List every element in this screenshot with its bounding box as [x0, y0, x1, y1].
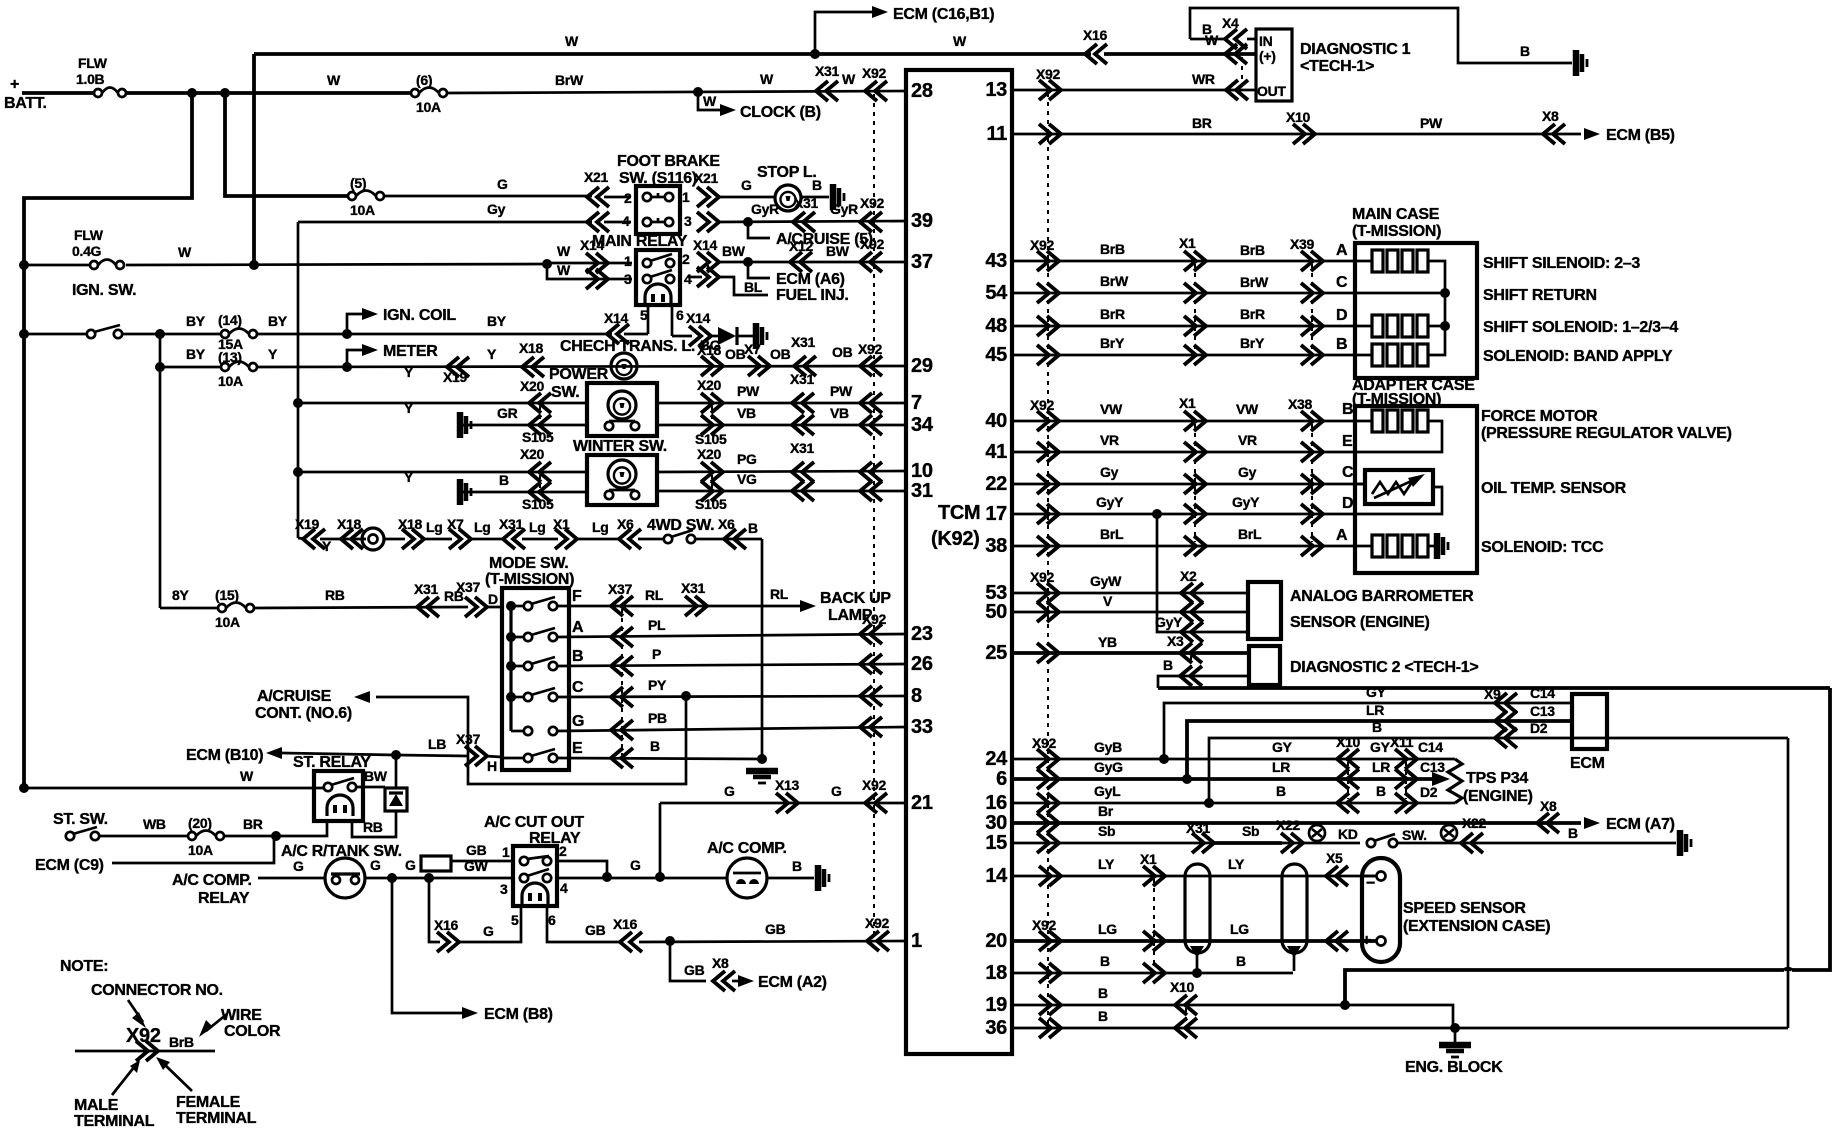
svg-text:A: A [1336, 527, 1348, 544]
fuse (5) 10A [348, 192, 356, 200]
svg-text:X16: X16 [613, 916, 638, 932]
svg-text:(5): (5) [350, 175, 366, 191]
wire TCM 48 BrR to main case D [1012, 325, 1355, 328]
svg-text:METER: METER [383, 343, 438, 360]
connector X3 dashes [1190, 656, 1192, 672]
connector X37 dashes (right) [621, 609, 623, 755]
svg-text:B: B [1098, 1008, 1108, 1024]
ground at a/c comp [815, 865, 822, 891]
svg-text:X92: X92 [126, 1025, 161, 1047]
svg-text:SPEED SENSOR: SPEED SENSOR [1403, 900, 1526, 917]
wire cutout pin6 GB row to TCM 1 [547, 906, 619, 942]
wire TCM 41 VR to adapter E [1012, 451, 1355, 454]
svg-text:BrR: BrR [1240, 306, 1265, 322]
svg-text:E: E [572, 740, 583, 757]
svg-text:ECM (B8): ECM (B8) [484, 1006, 553, 1023]
svg-text:G: G [572, 713, 584, 730]
wire row G PB to TCM 33 [557, 727, 906, 731]
svg-text:G: G [370, 857, 381, 873]
svg-text:SOLENOID: TCC: SOLENOID: TCC [1481, 539, 1604, 556]
svg-text:G: G [630, 857, 641, 873]
main relay coil [645, 284, 671, 305]
svg-text:SHIFT SOLENOID: 1–2/3–4: SHIFT SOLENOID: 1–2/3–4 [1483, 319, 1678, 336]
svg-text:TPS P34: TPS P34 [1466, 770, 1528, 787]
wire to ECM (C16,B1) [815, 12, 872, 54]
mode sw internal bus [509, 606, 512, 731]
svg-text:40: 40 [985, 410, 1007, 432]
wire winter sw right PG to TCM 10 [657, 471, 906, 472]
svg-text:X92: X92 [858, 341, 883, 357]
svg-text:G: G [483, 923, 494, 939]
wire FLW0.4G row to MAIN RELAY [126, 264, 546, 265]
svg-text:ANALOG BARROMETER: ANALOG BARROMETER [1290, 588, 1474, 605]
svg-text:C13: C13 [1530, 703, 1555, 719]
wire B row to ECM D2 and through to riser [1209, 738, 1788, 803]
connector X1 dashes (40-38) [1194, 424, 1196, 542]
svg-text:X20: X20 [520, 446, 545, 462]
svg-text:BrW: BrW [1100, 273, 1129, 289]
svg-text:33: 33 [911, 716, 933, 738]
lamp indicator 4WD [362, 528, 384, 550]
connector X38 dashes [1311, 424, 1313, 542]
wire TCM 30 Br to ECM A7 [1012, 821, 1581, 825]
svg-text:VB: VB [737, 405, 756, 421]
svg-text:BR: BR [243, 816, 263, 832]
svg-text:ECM (C16,B1): ECM (C16,B1) [893, 6, 994, 23]
wire to ECM (A2) [670, 941, 706, 981]
svg-text:B: B [1568, 825, 1578, 841]
node x254 junction on 0.4G row [249, 260, 259, 270]
solenoid band apply coil [1355, 354, 1372, 357]
svg-text:S105: S105 [695, 496, 727, 512]
legend arrow wire color [206, 1014, 227, 1031]
fuse FLW 1.0B [94, 89, 102, 97]
svg-text:W: W [842, 71, 856, 87]
svg-text:ECM (B5): ECM (B5) [1606, 127, 1675, 144]
svg-text:34: 34 [911, 414, 934, 436]
KD switch [1367, 839, 1375, 847]
svg-text:ECM (B10): ECM (B10) [186, 747, 263, 764]
svg-text:ECM (A7): ECM (A7) [1606, 816, 1675, 833]
wire TCM 19 B to eng block [1012, 1004, 1345, 1007]
svg-text:VR: VR [1238, 432, 1257, 448]
svg-text:P: P [652, 646, 661, 662]
node ECM C16 B1 branch [810, 49, 820, 59]
st relay contacts [324, 783, 332, 791]
svg-text:26: 26 [911, 653, 933, 675]
svg-text:BY: BY [487, 313, 507, 329]
svg-text:OB: OB [832, 344, 853, 360]
wire TCM 11 BR PW to ECM B5 [1012, 133, 1581, 136]
node ECM B8 branch [387, 873, 397, 883]
st relay coil [327, 795, 353, 816]
svg-text:C14: C14 [1418, 739, 1443, 755]
main relay pin5 pin6 stubs [647, 305, 650, 334]
ground top right [1573, 50, 1580, 76]
svg-text:RL: RL [645, 587, 664, 603]
svg-text:BW: BW [826, 243, 850, 259]
svg-text:Lg: Lg [529, 519, 546, 535]
svg-text:B: B [1372, 719, 1382, 735]
svg-text:Y: Y [404, 400, 414, 416]
svg-text:GyY: GyY [1232, 494, 1260, 510]
svg-text:24: 24 [985, 748, 1008, 770]
wire to METER arrow [347, 350, 362, 367]
wire B ground loop (diag2 to eng block) [1158, 686, 1830, 690]
diode box [385, 788, 407, 811]
svg-text:22: 22 [985, 473, 1007, 495]
wire pin6 to diode [672, 335, 692, 338]
svg-text:Y: Y [268, 346, 278, 362]
diagnostic 2 unit box [1249, 646, 1280, 685]
svg-text:YB: YB [1098, 634, 1117, 650]
svg-text:ECM: ECM [1570, 755, 1605, 772]
svg-text:X16: X16 [1083, 27, 1108, 43]
svg-text:GB: GB [466, 842, 487, 858]
svg-text:TERMINAL: TERMINAL [176, 1110, 257, 1127]
svg-text:10A: 10A [188, 842, 213, 858]
svg-text:−: − [1366, 875, 1375, 892]
wire to ECM (A6) [748, 262, 770, 278]
wire TCM 38 BrL to adapter A [1012, 545, 1355, 548]
svg-text:GyG: GyG [1094, 759, 1123, 775]
splice symbol A [1309, 825, 1325, 841]
svg-text:X31: X31 [499, 516, 524, 532]
svg-text:19: 19 [985, 994, 1007, 1016]
svg-text:10A: 10A [350, 202, 375, 218]
svg-text:8Y: 8Y [172, 587, 189, 603]
svg-text:H: H [487, 758, 497, 774]
wire G to foot brake pin2 [384, 195, 592, 198]
svg-text:X37: X37 [608, 581, 633, 597]
svg-text:PW: PW [737, 383, 760, 399]
svg-text:DIAGNOSTIC 2 <TECH-1>: DIAGNOSTIC 2 <TECH-1> [1290, 659, 1478, 676]
svg-text:GB: GB [585, 922, 606, 938]
svg-text:B: B [1098, 985, 1108, 1001]
wire row E B to ground bus [557, 758, 762, 759]
wire power sw right PW to TCM 7 [657, 402, 906, 405]
wire Lg segments [421, 538, 452, 541]
svg-text:38: 38 [985, 535, 1007, 557]
svg-text:BrW: BrW [1240, 274, 1269, 290]
legend wire sample [75, 1050, 215, 1053]
svg-text:OIL TEMP. SENSOR: OIL TEMP. SENSOR [1481, 480, 1627, 497]
power sw contacts [605, 422, 613, 430]
svg-text:54: 54 [985, 282, 1008, 304]
svg-text:Sb: Sb [1242, 823, 1259, 839]
svg-text:OB: OB [770, 346, 791, 362]
svg-text:X18: X18 [697, 342, 722, 358]
solenoid output bus [1427, 261, 1445, 355]
svg-text:15: 15 [985, 832, 1007, 854]
svg-text:RB: RB [363, 819, 383, 835]
svg-text:B: B [1376, 783, 1386, 799]
wire main relay pin1 feed [547, 262, 632, 265]
mode sw contact row C [524, 693, 532, 701]
svg-text:A: A [572, 619, 584, 636]
svg-text:X14: X14 [604, 310, 629, 326]
svg-text:(+): (+) [1259, 48, 1276, 64]
svg-text:BrL: BrL [1100, 526, 1124, 542]
force motor solenoid [1355, 420, 1372, 423]
oil temp sensor inner stub [1355, 483, 1365, 486]
svg-text:SW.: SW. [551, 384, 579, 401]
svg-text:WB: WB [143, 816, 166, 832]
svg-text:B: B [499, 472, 509, 488]
svg-text:W: W [327, 72, 341, 88]
svg-text:(EXTENSION CASE): (EXTENSION CASE) [1403, 918, 1550, 935]
svg-text:4: 4 [684, 271, 692, 287]
svg-text:W: W [565, 33, 579, 49]
svg-text:GyY: GyY [1096, 494, 1124, 510]
svg-text:LR: LR [1272, 759, 1290, 775]
svg-text:C: C [1342, 464, 1354, 481]
wire TCM 6 GyG LR to TPS C13 [1012, 777, 1436, 781]
svg-text:BR: BR [1192, 115, 1212, 131]
svg-text:TERMINAL: TERMINAL [74, 1113, 155, 1130]
ground ENG. BLOCK [1454, 1028, 1457, 1043]
svg-text:VB: VB [830, 405, 849, 421]
foot brake contacts [643, 193, 651, 201]
svg-text:X92: X92 [1030, 569, 1055, 585]
svg-text:X92: X92 [860, 195, 885, 211]
fuse (13) 10A [221, 363, 229, 371]
svg-text:W: W [953, 33, 967, 49]
svg-text:BATT.: BATT. [4, 95, 47, 112]
connector X1 dashes (speed) [1153, 879, 1155, 969]
svg-text:4: 4 [560, 880, 568, 896]
wire lamp to ground [801, 196, 829, 199]
wire pin1 to STOP L lamp [716, 196, 774, 199]
svg-text:IGN. SW.: IGN. SW. [72, 282, 136, 299]
svg-text:GY: GY [1272, 739, 1293, 755]
svg-text:G: G [405, 857, 416, 873]
wire TCM 24 GyB GY to TPS C14 [1012, 758, 1455, 761]
node battery junction 1 [187, 88, 197, 98]
node GyY barometer branch [1152, 509, 1162, 519]
svg-text:Gy: Gy [1238, 464, 1257, 480]
mode sw contact row G [524, 727, 532, 735]
svg-text:FOOT BRAKE: FOOT BRAKE [617, 153, 720, 170]
svg-text:X92: X92 [862, 65, 887, 81]
solenoid TCC coil [1355, 545, 1372, 548]
wire Y row to winter sw [293, 467, 303, 477]
node fuse row split [155, 329, 165, 339]
node ECM A6 branch [743, 257, 753, 267]
svg-text:RL: RL [770, 586, 789, 602]
svg-text:Gy: Gy [487, 201, 506, 217]
svg-text:BrL: BrL [1238, 526, 1262, 542]
svg-text:41: 41 [985, 441, 1007, 463]
mode sw contact row E [524, 754, 532, 762]
svg-text:X31: X31 [790, 440, 815, 456]
svg-text:V: V [1103, 593, 1113, 609]
fuse (6) 10A [411, 89, 419, 97]
wire Y row fuse13 to TCM 29 [257, 366, 906, 367]
svg-text:X31: X31 [414, 581, 439, 597]
wire pin4 to a/c comp [557, 877, 727, 880]
svg-text:LY: LY [1228, 856, 1245, 872]
svg-text:11: 11 [986, 123, 1007, 145]
svg-text:CLOCK (B): CLOCK (B) [740, 104, 821, 121]
svg-text:8: 8 [911, 685, 922, 707]
svg-text:MAIN CASE: MAIN CASE [1352, 206, 1440, 223]
svg-text:X31: X31 [794, 195, 819, 211]
TCM (K92) control module box [906, 70, 1012, 1054]
svg-text:POWER: POWER [549, 366, 609, 383]
svg-text:BY: BY [186, 313, 206, 329]
svg-text:SW.: SW. [1402, 827, 1427, 843]
svg-text:CONT. (NO.6): CONT. (NO.6) [255, 705, 352, 722]
ground KD row [1677, 830, 1684, 856]
winter sw contacts [605, 491, 613, 499]
wire row C PY to TCM 8 [557, 696, 906, 697]
svg-text:CONNECTOR NO.: CONNECTOR NO. [91, 982, 223, 999]
svg-text:3: 3 [684, 213, 692, 229]
svg-text:LR: LR [1372, 759, 1390, 775]
svg-text:7: 7 [911, 392, 922, 414]
svg-text:WR: WR [1192, 71, 1215, 87]
svg-text:SENSOR (ENGINE): SENSOR (ENGINE) [1290, 614, 1430, 631]
svg-text:B: B [1163, 657, 1173, 673]
svg-text:BACK UP: BACK UP [820, 590, 891, 607]
node MAIN RELAY feed junction [542, 259, 552, 269]
node battery junction 2 [220, 88, 230, 98]
wire to A/CRUISE (5) [748, 222, 770, 238]
svg-text:14: 14 [985, 865, 1008, 887]
wire Gy row from riser x298 [297, 222, 300, 538]
svg-text:BrB: BrB [169, 1034, 194, 1050]
svg-text:WINTER SW.: WINTER SW. [573, 438, 667, 455]
wire pin4 to FUEL INJ [697, 267, 719, 287]
wire GyR row pin3 to TCM 39 [716, 221, 906, 222]
svg-text:ECM (A6): ECM (A6) [776, 271, 845, 288]
wire rtank to cutout relay [365, 877, 513, 880]
diagnostic 1 unit box [1256, 29, 1292, 101]
svg-text:B: B [1100, 953, 1110, 969]
wire row B P to TCM 26 [557, 664, 906, 666]
svg-text:BrR: BrR [1100, 306, 1125, 322]
svg-text:X31: X31 [791, 334, 816, 350]
svg-text:X16: X16 [434, 917, 459, 933]
svg-text:X21: X21 [584, 169, 609, 185]
svg-text:C: C [1336, 274, 1348, 291]
svg-text:(T-MISSION): (T-MISSION) [1352, 223, 1441, 240]
svg-text:0.4G: 0.4G [72, 243, 102, 259]
svg-text:(PRESSURE REGULATOR VALVE): (PRESSURE REGULATOR VALVE) [1481, 425, 1732, 442]
svg-text:B: B [812, 177, 822, 193]
wire TCM 45 BrY to main case B [1012, 354, 1355, 357]
svg-text:21: 21 [911, 792, 933, 814]
wire drop to fuse13 row [159, 334, 162, 608]
svg-text:IN: IN [1259, 33, 1273, 49]
svg-text:BL: BL [744, 279, 763, 295]
svg-text:(K92): (K92) [931, 528, 980, 550]
svg-text:LG: LG [1098, 921, 1117, 937]
svg-text:OUT: OUT [1257, 83, 1286, 99]
svg-text:PL: PL [648, 617, 666, 633]
svg-text:Gy: Gy [1100, 464, 1119, 480]
wire TCM 20 LG to speed sensor plus [1012, 939, 1377, 943]
svg-text:VR: VR [1100, 432, 1119, 448]
fuse (15) 10A [218, 604, 226, 612]
svg-text:4: 4 [622, 213, 630, 229]
svg-text:X38: X38 [1288, 396, 1313, 412]
svg-text:G: G [831, 783, 842, 799]
svg-text:Y: Y [404, 469, 414, 485]
svg-text:BrB: BrB [1100, 241, 1125, 257]
svg-text:3: 3 [500, 881, 508, 897]
wire BY row from fuse14 to relay pin5 [257, 333, 612, 336]
wire vertical battery drop x225 to fuse5 row [225, 93, 348, 196]
svg-text:G: G [293, 858, 304, 874]
wire D2 riser down to pin36 row [1787, 738, 1790, 1028]
wire W feed to st relay [19, 783, 29, 793]
node ign sw junction [19, 329, 29, 339]
svg-text:D: D [488, 591, 498, 607]
svg-text:X1: X1 [1140, 851, 1157, 867]
svg-text:TCM: TCM [938, 502, 980, 524]
wire to CLOCK (B) [698, 92, 726, 110]
svg-text:(20): (20) [188, 815, 212, 831]
wire TCM 14 LY to speed sensor minus [1012, 875, 1377, 878]
svg-text:ECM (A2): ECM (A2) [758, 974, 827, 991]
ground X13 bus [746, 768, 778, 775]
wire Sb to ground [1397, 842, 1676, 845]
TPS wiper arrow [1432, 772, 1450, 786]
svg-text:Lg: Lg [474, 519, 491, 535]
wire GR ground to power sw [457, 412, 464, 438]
shield loop 2 [1282, 864, 1307, 953]
wire GyY branch to barometer [1157, 514, 1248, 632]
wire to ECM (B8) [392, 878, 462, 1013]
svg-text:RB: RB [325, 587, 345, 603]
analog barometer sensor box [1248, 582, 1281, 639]
fuse (20) 10A [188, 832, 196, 840]
svg-text:X7: X7 [744, 341, 761, 357]
shield loop 1 [1185, 864, 1210, 953]
connector X20 (GR) with S105 [529, 415, 551, 435]
connector X10 X11 dashes [1347, 762, 1349, 799]
node clock branch junction [693, 87, 703, 97]
node PY branch to A/CRUISE CONT [681, 691, 691, 701]
svg-text:2: 2 [682, 251, 690, 267]
svg-text:GyR: GyR [830, 201, 858, 217]
svg-text:X13: X13 [775, 777, 800, 793]
svg-text:VG: VG [737, 471, 757, 487]
svg-text:X8: X8 [1542, 108, 1559, 124]
svg-text:45: 45 [985, 344, 1007, 366]
svg-text:A/C COMP.: A/C COMP. [707, 840, 787, 857]
oil temp sensor loop to D [1355, 487, 1442, 514]
wire B drop to ground x762 [761, 539, 764, 762]
svg-text:IGN. COIL: IGN. COIL [383, 307, 456, 324]
wire vertical battery drop x192 [24, 93, 192, 788]
svg-text:1: 1 [502, 844, 510, 860]
svg-text:B: B [1336, 336, 1347, 353]
svg-text:MALE: MALE [74, 1097, 119, 1114]
svg-text:20: 20 [985, 930, 1007, 952]
connector X21 left (Gy row) [587, 212, 609, 232]
wire LB drop through diode to coil [395, 755, 398, 788]
svg-text:X19: X19 [295, 516, 320, 532]
svg-text:1: 1 [911, 930, 922, 952]
svg-text:DIAGNOSTIC 1: DIAGNOSTIC 1 [1300, 41, 1411, 58]
svg-text:Sb: Sb [1098, 823, 1115, 839]
speed sensor oval [1362, 858, 1400, 962]
wire top W run to X16 and DIAGNOSTIC 1 [254, 52, 1091, 56]
svg-text:LB: LB [428, 736, 446, 752]
